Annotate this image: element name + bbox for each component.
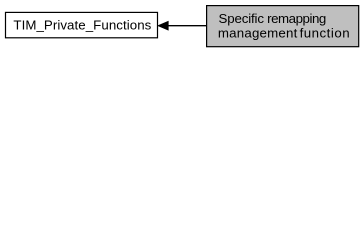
wire edge line [167,25,207,27]
svg-text:TIM_Private_Functions: TIM_Private_Functions [13,17,151,32]
svg-text:managementfunction: managementfunction [218,25,350,40]
background [0,0,363,52]
svg-text:Specificremapping: Specificremapping [219,11,326,26]
arrowhead [158,21,168,30]
node TIM_Private_Functions box [6,12,158,37]
node Specific remapping management function box [207,6,359,47]
